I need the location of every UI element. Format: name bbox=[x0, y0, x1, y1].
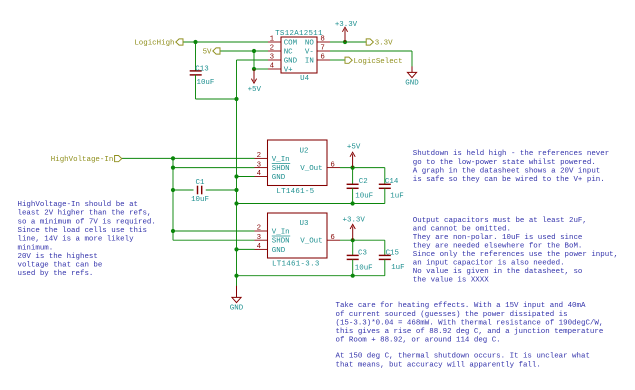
U2 pin 3 SHDN bbox=[255, 167, 268, 169]
svg-text:GND: GND bbox=[272, 247, 286, 255]
svg-text:U4: U4 bbox=[300, 75, 309, 83]
hierarchical label LogicHigh bbox=[176, 39, 183, 45]
svg-text:(15-3.3)*0.04 = 468mW. With th: (15-3.3)*0.04 = 468mW. With thermal resi… bbox=[336, 319, 604, 327]
regulator U3 LT1461-3.3 body bbox=[268, 213, 328, 258]
wire C15 top lead bbox=[384, 240, 386, 255]
svg-text:the value is XXXX: the value is XXXX bbox=[413, 277, 489, 285]
svg-text:2: 2 bbox=[257, 225, 261, 233]
svg-text:Since the load cells use this: Since the load cells use this bbox=[18, 227, 147, 235]
U3 pin 6 V_Out bbox=[327, 239, 340, 241]
svg-text:HighVoltage-In: HighVoltage-In bbox=[51, 156, 114, 164]
svg-text:minimum.: minimum. bbox=[18, 244, 54, 252]
svg-text:10uF: 10uF bbox=[355, 264, 373, 272]
svg-text:10uF: 10uF bbox=[197, 79, 215, 87]
U4 pin 4 V+ bbox=[268, 68, 281, 70]
junction V_Out / +5V bbox=[351, 166, 355, 170]
wire C13 top lead bbox=[195, 42, 197, 71]
svg-text:V_Out: V_Out bbox=[300, 238, 322, 246]
svg-text:2: 2 bbox=[270, 45, 274, 53]
svg-text:V_In: V_In bbox=[272, 228, 290, 236]
svg-text:GND: GND bbox=[284, 57, 298, 65]
U4 pin 8 NO bbox=[317, 41, 330, 43]
U3 pin 2 V_In bbox=[255, 230, 268, 232]
svg-text:U3: U3 bbox=[300, 220, 309, 228]
svg-text:Take care for heating effects.: Take care for heating effects. With a 15… bbox=[336, 302, 586, 310]
junction C2 bottom bbox=[351, 201, 355, 205]
svg-text:TS12A12511: TS12A12511 bbox=[275, 30, 323, 38]
svg-text:10uF: 10uF bbox=[191, 196, 209, 204]
svg-text:They are non-polar. 10uF is us: They are non-polar. 10uF is used since bbox=[413, 234, 583, 242]
wire C3 top lead bbox=[352, 240, 354, 255]
wire U2 V_Out bbox=[340, 167, 385, 169]
svg-text:SHDN: SHDN bbox=[272, 165, 290, 173]
wire V- drop bbox=[411, 51, 413, 67]
svg-text:At 150 deg C, thermal shutdown: At 150 deg C, thermal shutdown occurs. I… bbox=[336, 353, 590, 361]
svg-text:+5V: +5V bbox=[347, 144, 361, 152]
svg-text:4: 4 bbox=[270, 63, 275, 71]
power symbol +3.3V at U4 bbox=[344, 29, 346, 42]
svg-text:of Room + 88.92, or around 114: of Room + 88.92, or around 114 deg C. bbox=[336, 336, 501, 344]
junction C1 / GND net bbox=[234, 188, 238, 192]
wire to U2 GND bbox=[237, 176, 255, 178]
svg-text:Shutdown is held high - the re: Shutdown is held high - the references n… bbox=[413, 150, 609, 158]
svg-text:5V: 5V bbox=[203, 49, 212, 57]
junction C1 left bbox=[171, 188, 175, 192]
svg-text:C14: C14 bbox=[385, 178, 399, 186]
capacitor C3 bbox=[347, 254, 359, 256]
svg-text:HighVoltage-In should be at: HighVoltage-In should be at bbox=[18, 201, 139, 209]
junction C3 bottom bbox=[351, 274, 355, 278]
svg-text:10uF: 10uF bbox=[355, 192, 373, 200]
U4 pin 6 IN bbox=[317, 59, 330, 61]
wire GND net vertical bus bbox=[236, 60, 238, 286]
wire C2 top lead bbox=[352, 168, 354, 185]
hierarchical label 5V bbox=[213, 48, 220, 54]
wire U4 pin 6 to LogicSelect bbox=[330, 59, 345, 61]
U2 pin 4 GND bbox=[255, 176, 268, 178]
wire C14 top lead bbox=[384, 168, 386, 185]
svg-text:they are needed elsewhere for: they are needed elsewhere for the BoM. bbox=[413, 243, 583, 251]
U2 pin 6 V_Out bbox=[327, 167, 340, 169]
svg-text:4: 4 bbox=[257, 170, 262, 178]
power symbol +5V at U2 output bbox=[352, 154, 354, 167]
power symbol GND at U4 bbox=[411, 66, 413, 72]
svg-text:that means, but accuracy will: that means, but accuracy will apparently… bbox=[336, 361, 541, 369]
junction 5V net to V+ bbox=[252, 49, 256, 53]
capacitor C13 bbox=[190, 70, 202, 72]
svg-text:IN: IN bbox=[305, 57, 314, 65]
U2 SHDN overline bbox=[272, 162, 290, 164]
junction LogicHigh / C13 bbox=[193, 40, 197, 44]
svg-text:7: 7 bbox=[320, 45, 324, 53]
svg-text:2: 2 bbox=[257, 152, 261, 160]
svg-text:U2: U2 bbox=[300, 148, 309, 156]
wire C1 right lead bbox=[206, 189, 237, 191]
svg-text:C3: C3 bbox=[358, 250, 367, 258]
svg-text:GND: GND bbox=[272, 174, 286, 182]
U4 pin 2 NC bbox=[268, 50, 281, 52]
svg-text:1uF: 1uF bbox=[390, 192, 403, 200]
junction HV / U3 V_In bbox=[171, 229, 175, 233]
svg-text:C1: C1 bbox=[196, 179, 205, 187]
hierarchical label HighVoltage-In bbox=[115, 156, 122, 162]
svg-text:8: 8 bbox=[320, 36, 324, 44]
capacitor C14 bbox=[379, 183, 391, 185]
svg-text:is safe so they can be wired t: is safe so they can be wired to the V+ p… bbox=[413, 176, 605, 184]
wire C14 bottom lead bbox=[384, 188, 386, 203]
svg-text:so a minimum of 7V is required: so a minimum of 7V is required. bbox=[18, 218, 156, 226]
power symbol +5V (down) at U4 bbox=[253, 69, 255, 81]
svg-text:LogicSelect: LogicSelect bbox=[354, 58, 403, 66]
svg-text:go to the low-power state whil: go to the low-power state whilst powered… bbox=[413, 159, 596, 167]
wire LogicHigh to U4 pin 1 bbox=[183, 41, 268, 43]
wire U4 pin 8 to 3.3V label bbox=[330, 41, 367, 43]
U4 pin 7 V- bbox=[317, 50, 330, 52]
svg-text:voltage that can be: voltage that can be bbox=[18, 262, 103, 270]
svg-text:V+: V+ bbox=[284, 66, 293, 74]
svg-text:an input capacitor is also nee: an input capacitor is also needed. bbox=[413, 260, 565, 268]
svg-text:and cannot be omitted.: and cannot be omitted. bbox=[413, 226, 511, 234]
wire to U3 GND bbox=[237, 248, 255, 250]
svg-text:1: 1 bbox=[270, 36, 275, 44]
svg-text:LT1461-5: LT1461-5 bbox=[276, 188, 314, 196]
U2 pin 2 V_In bbox=[255, 157, 268, 159]
wire 5V net vertical bbox=[253, 51, 255, 69]
U4 pin 1 COM bbox=[268, 41, 281, 43]
wire U3 V_Out bbox=[340, 239, 385, 241]
wire HighVoltage net vertical bbox=[172, 158, 174, 240]
svg-text:this gives a rise of 88.92 deg: this gives a rise of 88.92 deg C, and a … bbox=[336, 328, 604, 336]
wire HighVoltage-In to U2 V_In bbox=[122, 157, 255, 159]
svg-text:LT1461-3.3: LT1461-3.3 bbox=[272, 261, 320, 269]
capacitor C15 bbox=[379, 254, 391, 256]
svg-text:used by the refs.: used by the refs. bbox=[18, 270, 94, 278]
svg-text:A graph in the datasheet shows: A graph in the datasheet shows a 20V inp… bbox=[413, 167, 600, 175]
svg-text:COM: COM bbox=[284, 39, 297, 47]
svg-text:+5V: +5V bbox=[248, 86, 262, 94]
hierarchical label 3.3V bbox=[366, 39, 373, 45]
svg-text:GND: GND bbox=[405, 80, 419, 88]
svg-text:C13: C13 bbox=[195, 65, 208, 73]
power symbol GND at bottom bbox=[236, 286, 238, 298]
junction C13/GND bbox=[234, 97, 238, 101]
wire U4 pin 7 V- to ground bbox=[330, 50, 412, 52]
wire caps return to GND bbox=[237, 203, 385, 205]
svg-text:V-: V- bbox=[305, 48, 314, 56]
hierarchical label LogicSelect bbox=[345, 57, 352, 63]
svg-text:+3.3V: +3.3V bbox=[343, 216, 366, 224]
junction HV / vertical bbox=[171, 156, 175, 160]
svg-text:V_In: V_In bbox=[272, 156, 290, 164]
junction caps bus / GND net (U3) bbox=[234, 274, 238, 278]
junction V+ junction bbox=[252, 67, 256, 71]
svg-text:6: 6 bbox=[330, 234, 334, 242]
svg-text:least 2V higher than the refs,: least 2V higher than the refs, bbox=[18, 210, 152, 218]
svg-text:3: 3 bbox=[270, 54, 274, 62]
wire to U3 SHDN bbox=[173, 239, 255, 241]
wire C2 bottom lead bbox=[352, 188, 354, 203]
svg-text:Since only the references use: Since only the references use the power … bbox=[413, 251, 618, 259]
regulator U2 LT1461-5 body bbox=[268, 140, 328, 186]
junction V_Out / +3.3V bbox=[351, 238, 355, 242]
svg-text:3.3V: 3.3V bbox=[375, 40, 393, 48]
op-amp U4 TS12A12511 analog switch body bbox=[281, 37, 317, 73]
power symbol +3.3V at U3 output bbox=[352, 226, 354, 240]
junction caps bus / GND net bbox=[234, 201, 238, 205]
svg-text:C2: C2 bbox=[359, 178, 368, 186]
junction +3.3V tap bbox=[343, 40, 347, 44]
wire to U4 pin 4 bbox=[254, 68, 268, 70]
wire to U3 V_In bbox=[173, 230, 255, 232]
junction GND / U2 GND pin bbox=[234, 174, 238, 178]
U3 SHDN overline bbox=[272, 235, 290, 237]
wire C1 left lead bbox=[173, 189, 194, 191]
svg-text:C15: C15 bbox=[386, 250, 399, 258]
svg-text:line, 14V is a more likely: line, 14V is a more likely bbox=[18, 236, 135, 244]
U3 pin 3 SHDN bbox=[255, 239, 268, 241]
wire C15 bottom lead bbox=[384, 259, 386, 275]
svg-text:6: 6 bbox=[320, 54, 324, 62]
svg-text:V_Out: V_Out bbox=[300, 165, 322, 173]
svg-text:20V is the highest: 20V is the highest bbox=[18, 253, 98, 261]
wire C13 to GND net bbox=[196, 98, 237, 100]
svg-text:NO: NO bbox=[305, 39, 314, 47]
svg-text:SHDN: SHDN bbox=[272, 238, 290, 246]
wire C3 bottom lead bbox=[352, 259, 354, 275]
svg-text:GND: GND bbox=[230, 305, 244, 313]
svg-text:+3.3V: +3.3V bbox=[335, 21, 358, 29]
wire C13 bottom lead bbox=[195, 75, 197, 99]
junction HV / U2 SHDN bbox=[171, 166, 175, 170]
svg-text:1uF: 1uF bbox=[391, 264, 404, 272]
capacitor C2 bbox=[347, 183, 359, 185]
svg-text:NC: NC bbox=[284, 48, 293, 56]
wire caps return to GND (U3) bbox=[237, 275, 385, 277]
svg-text:4: 4 bbox=[257, 243, 262, 251]
svg-text:Output capacitors must be at l: Output capacitors must be at least 2uF, bbox=[413, 217, 587, 225]
U4 pin 3 GND bbox=[268, 59, 281, 61]
svg-text:No value is given in the datas: No value is given in the datasheet, so bbox=[413, 268, 583, 276]
wire 5V to U4 pin 2 bbox=[220, 50, 268, 52]
svg-text:3: 3 bbox=[257, 161, 261, 169]
svg-text:of current sourced (guesses) t: of current sourced (guesses) the power d… bbox=[336, 311, 568, 319]
svg-text:LogicHigh: LogicHigh bbox=[134, 40, 174, 48]
svg-text:6: 6 bbox=[330, 161, 334, 169]
capacitor C1 bbox=[197, 186, 199, 195]
wire to U2 SHDN bbox=[173, 167, 255, 169]
svg-text:3: 3 bbox=[257, 234, 261, 242]
junction GND / U3 GND pin bbox=[234, 247, 238, 251]
wire U4 GND pin to GND net bbox=[237, 59, 269, 61]
U3 pin 4 GND bbox=[255, 248, 268, 250]
